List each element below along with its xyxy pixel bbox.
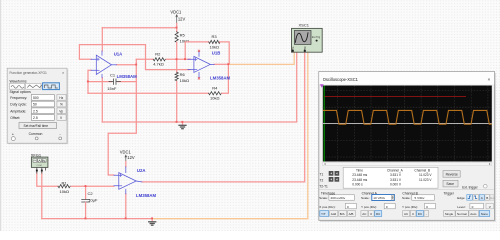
FUNCTION GENERATOR DIALOG XFG1: [7, 68, 68, 144]
power VDC1 (top) symbol: [175, 14, 178, 24]
svg-text:U1A: U1A: [114, 51, 123, 56]
button Save: [443, 180, 458, 187]
svg-text:R6: R6: [180, 72, 186, 77]
junction U1B output node: [227, 63, 229, 65]
readout table: [343, 167, 438, 188]
svg-text:LM358AM: LM358AM: [210, 75, 230, 80]
svg-text:T1: T1: [320, 173, 324, 177]
svg-text:3.531 V: 3.531 V: [390, 178, 402, 182]
svg-text:Time: Time: [356, 168, 363, 172]
wire: VDC1 stem to junction: [176, 23, 178, 27]
svg-text:T2: T2: [320, 179, 324, 183]
svg-text:Signal options: Signal options: [10, 90, 32, 94]
svg-text:3.531 V: 3.531 V: [390, 173, 402, 177]
capacitor C1: [109, 79, 121, 84]
svg-text:None: None: [481, 212, 489, 216]
svg-text:Auto: Auto: [470, 212, 477, 216]
svg-text:XFG1: XFG1: [31, 152, 42, 157]
svg-text:Single: Single: [445, 212, 454, 216]
wire: top rail from U1A V+ to VDC1 junction: [102, 27, 176, 29]
button Reverse: [443, 171, 460, 178]
svg-text:15nF: 15nF: [107, 86, 117, 91]
waveform button sine: [9, 83, 24, 89]
svg-text:Function generator-XFG1: Function generator-XFG1: [10, 71, 48, 75]
svg-text:%: %: [60, 103, 63, 107]
wire: ground rail + scope A- riser: [102, 52, 296, 122]
svg-text:Duty cycle:: Duty cycle:: [10, 103, 27, 107]
svg-text:10kΩ: 10kΩ: [180, 78, 189, 83]
wire: U1B output to node: [214, 63, 228, 65]
channel B buttons: [403, 211, 410, 217]
waveform button triangle: [26, 83, 41, 89]
svg-text:10kΩ: 10kΩ: [210, 96, 219, 101]
svg-text:4.7kΩ: 4.7kΩ: [153, 62, 164, 67]
junction R3 tap on U1B+ line: [184, 58, 186, 60]
svg-text:12V: 12V: [127, 155, 135, 160]
svg-text:B: B: [486, 196, 488, 200]
svg-text:Ext. trigger: Ext. trigger: [462, 185, 478, 189]
svg-text:23.448 ms: 23.448 ms: [352, 173, 367, 177]
trigger marker: [320, 84, 324, 87]
resistor R4 (horizontal): [209, 92, 222, 95]
junction ground symbol / ground rail: [181, 121, 183, 123]
capacitor C2: [82, 199, 90, 202]
svg-text:Hz: Hz: [59, 96, 63, 100]
wire: U1A V- down to ground rail: [101, 78, 103, 122]
svg-text:23.448 ms: 23.448 ms: [352, 178, 367, 182]
svg-text:R2: R2: [155, 51, 161, 56]
op-amp U1A: [91, 51, 117, 78]
junction U2A V- / bottom rail: [125, 217, 127, 219]
svg-text:COM: COM: [37, 165, 42, 167]
resistor R5 (vertical): [175, 32, 178, 43]
junction bottom rail / scope B- net: [151, 217, 153, 219]
junction C1 tap on U1A- line: [87, 81, 89, 83]
svg-text:A/B: A/B: [349, 212, 354, 216]
svg-text:Common: Common: [29, 132, 43, 136]
resistor R6 (vertical): [175, 72, 178, 80]
svg-text:B/A: B/A: [340, 212, 345, 216]
wire: R4 line from U1A- node: [88, 92, 209, 94]
wire: XFG1 pin2 to bottom rail: [41, 173, 43, 219]
svg-text:200 us/Div: 200 us/Div: [331, 196, 346, 200]
svg-text:10kΩ: 10kΩ: [180, 39, 189, 44]
channel A buttons: [361, 211, 368, 217]
svg-text:500: 500: [33, 96, 39, 100]
svg-text:Y/T: Y/T: [321, 212, 326, 216]
svg-text:Y pos.(Div):: Y pos.(Div):: [402, 205, 418, 209]
wire: scope B+ riser to U2A output line: [142, 52, 305, 182]
instrument icon XFG1: [31, 157, 48, 173]
wire: U1A output: [117, 64, 137, 66]
resistor R1 (horizontal): [58, 185, 70, 188]
svg-text:Ext: Ext: [490, 196, 494, 200]
svg-text:Scale:: Scale:: [402, 196, 411, 200]
svg-text:Level:: Level:: [457, 205, 465, 209]
svg-text:Reverse: Reverse: [446, 172, 458, 176]
resistor R2 (horizontal): [153, 58, 165, 61]
svg-text:10kΩ: 10kΩ: [60, 189, 69, 194]
wire (orange): scope B- riser to ground point: [152, 52, 308, 218]
wire: divider column mid segment: [176, 42, 178, 72]
wire: R3 right down to output node: [220, 42, 230, 64]
junction at VDC1 / top rail: [176, 27, 178, 29]
waveform button square (selected): [43, 83, 60, 90]
svg-text:U1B: U1B: [212, 50, 221, 55]
svg-text:0: 0: [426, 205, 428, 209]
svg-text:Vp: Vp: [59, 109, 63, 113]
svg-text:-: -: [426, 212, 427, 216]
svg-text:X pos.(Div):: X pos.(Div):: [319, 205, 335, 209]
wire: U1A inverting input down: [88, 70, 91, 93]
wire: R2 line right segment to U1B+: [166, 58, 190, 60]
op-amp U2A: [114, 167, 142, 194]
wire: C1 line: [88, 81, 136, 83]
svg-text:0.000 s: 0.000 s: [352, 183, 363, 187]
svg-text:R3: R3: [212, 34, 218, 39]
svg-text:Offset:: Offset:: [10, 116, 20, 120]
trigger buttons: [444, 211, 456, 217]
svg-text:2.5: 2.5: [33, 109, 38, 113]
ground (lower): [151, 219, 153, 222]
svg-text:LM358AM: LM358AM: [117, 74, 137, 79]
svg-text:Normal: Normal: [457, 212, 467, 216]
svg-text:R4: R4: [212, 86, 218, 91]
wire: U1A V+ drop: [101, 28, 103, 51]
svg-text:11.023 V: 11.023 V: [419, 173, 432, 177]
timebase buttons: [320, 211, 329, 217]
wire: R4 right up to U1B output node: [222, 64, 229, 93]
readout: cursor arrow buttons: [329, 171, 340, 182]
svg-text:Waveforms: Waveforms: [10, 79, 27, 83]
svg-text:5 V/Div: 5 V/Div: [415, 196, 425, 200]
svg-text:R5: R5: [180, 33, 186, 38]
wire: feedback loop U1A+ to U1B-: [79, 45, 190, 70]
wire: divider column upper segment: [176, 28, 178, 32]
svg-text:10kΩ: 10kΩ: [210, 45, 219, 50]
svg-text:×: ×: [488, 77, 491, 83]
wire: R3 line left + down to U1B+ node: [185, 42, 209, 59]
op-amp U1B: [188, 52, 214, 78]
svg-text:C2: C2: [88, 191, 94, 196]
svg-text:R1: R1: [62, 180, 68, 185]
svg-text:11.023 V: 11.023 V: [419, 178, 432, 182]
svg-text:Frequency:: Frequency:: [10, 96, 27, 100]
junction divider column / ground rail: [176, 121, 178, 123]
svg-text:Set rise/Fall time: Set rise/Fall time: [24, 124, 49, 128]
svg-text:Ext Trig: Ext Trig: [312, 36, 321, 39]
svg-text:2.5: 2.5: [33, 116, 38, 120]
junction divider R5-R6 node: [176, 58, 178, 60]
svg-text:50: 50: [33, 103, 37, 107]
separator: [319, 189, 494, 191]
resistor R3 (horizontal): [209, 40, 220, 43]
svg-text:Y pos.(Div):: Y pos.(Div):: [361, 205, 377, 209]
svg-text:10 V/Div: 10 V/Div: [373, 196, 385, 200]
svg-text:T2-T1: T2-T1: [319, 185, 328, 189]
svg-text:0: 0: [386, 205, 388, 209]
wire: R2 line left segment: [136, 58, 153, 60]
scope title bar: [319, 72, 494, 84]
svg-text:XSC1: XSC1: [299, 23, 310, 28]
wire: R1 to U2A- input: [71, 185, 114, 187]
svg-text:12V: 12V: [178, 16, 186, 21]
svg-text:Scale:: Scale:: [319, 196, 328, 200]
OSCILLOSCOPE WINDOW XSC1: [319, 72, 499, 222]
svg-text:VDC1: VDC1: [170, 9, 182, 14]
junction C2 / bottom rail: [85, 217, 87, 219]
svg-text:0.000 V: 0.000 V: [390, 183, 402, 187]
wire: bottom ground rail: [42, 218, 152, 220]
junction U1A output node: [135, 64, 137, 66]
scope screen: [323, 86, 492, 162]
wire: C2 to bottom rail: [85, 202, 87, 218]
wire: XFG1 pin1 to R1 line: [37, 173, 58, 186]
button Set rise/Fall time: [19, 123, 57, 129]
trace: channel A dark red line: [325, 96, 467, 98]
svg-text:C1: C1: [110, 73, 116, 78]
wire: C2 branch: [85, 186, 87, 199]
svg-text:Channel_B: Channel_B: [414, 168, 430, 172]
svg-text:VDC1: VDC1: [120, 149, 132, 154]
svg-text:10µF: 10µF: [88, 197, 98, 202]
wire: U1A output node column down to U2A+ branch: [108, 59, 136, 175]
svg-text:Add: Add: [331, 212, 337, 216]
svg-text:Edge:: Edge:: [457, 196, 465, 200]
svg-text:Channel_A: Channel_A: [387, 168, 404, 172]
svg-text:Scale:: Scale:: [361, 196, 370, 200]
svg-text:Save: Save: [446, 182, 454, 186]
svg-text:0: 0: [472, 205, 474, 209]
unconnected power pin marks U1B: [198, 50, 200, 79]
wire: divider column lower segment to ground rail: [176, 82, 178, 123]
junction C2 tap on R1 line: [85, 185, 87, 187]
wire (orange): U1B output node to scope A+: [228, 52, 294, 64]
svg-text:Amplitude:: Amplitude:: [10, 109, 26, 113]
CIRCUIT GROUP: [31, 9, 323, 225]
wire: VDC to U2A V+: [125, 161, 127, 166]
svg-text:Oscilloscope-XSC1: Oscilloscope-XSC1: [323, 77, 359, 82]
instrument icon XSC1: [292, 28, 323, 52]
wire: U2A V- to bottom rail: [125, 194, 127, 219]
svg-text:0: 0: [347, 205, 349, 209]
screen scrollbar: [323, 162, 492, 165]
svg-text:Trigger: Trigger: [444, 192, 455, 196]
svg-text:LM358AM: LM358AM: [136, 193, 156, 198]
trace: green edge line: [323, 86, 325, 162]
ground (upper): [182, 122, 184, 125]
svg-text:U2A: U2A: [137, 168, 146, 173]
trace: channel B white zero line: [323, 122, 492, 124]
trace: channel B orange square wave: [323, 110, 499, 124]
power VDC1 (U2A) symbol: [125, 154, 128, 161]
